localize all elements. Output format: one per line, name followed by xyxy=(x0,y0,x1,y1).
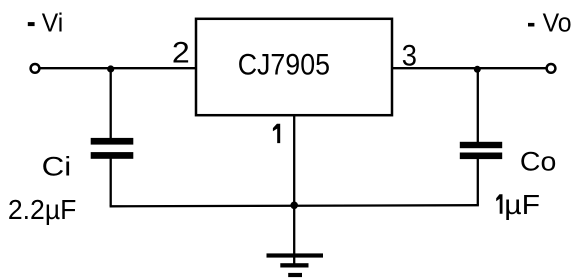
svg-text:2.2µF: 2.2µF xyxy=(8,194,77,225)
svg-text:Ci: Ci xyxy=(42,151,72,181)
svg-text:Vo: Vo xyxy=(543,9,572,37)
svg-text:2: 2 xyxy=(172,36,190,69)
svg-text:3: 3 xyxy=(402,39,417,72)
svg-text:CJ7905: CJ7905 xyxy=(238,49,330,82)
svg-text:Vi: Vi xyxy=(42,10,64,38)
svg-text:Co: Co xyxy=(520,146,556,176)
svg-text:µF: µF xyxy=(504,189,540,220)
